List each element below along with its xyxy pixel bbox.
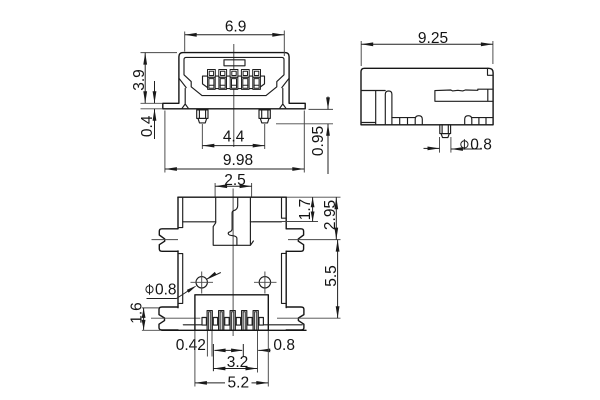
block pin 2 bbox=[219, 311, 224, 331]
right edge outer segments bbox=[285, 197, 287, 307]
contact bar bbox=[435, 89, 493, 101]
flange lower-right bbox=[286, 307, 304, 330]
bump right bbox=[465, 116, 472, 125]
inner horizontal left bbox=[183, 221, 216, 223]
hole left bbox=[191, 272, 214, 294]
svg-text:0.42: 0.42 bbox=[176, 337, 206, 354]
svg-text:1.6: 1.6 bbox=[128, 302, 145, 324]
pin holder trapezoid bbox=[203, 76, 265, 89]
wire centerline front view bbox=[233, 44, 235, 147]
notch line lower-left bbox=[151, 317, 200, 319]
svg-text:9.98: 9.98 bbox=[223, 152, 253, 169]
pin 4 bbox=[241, 70, 249, 90]
horizontal line behind pins bbox=[183, 324, 302, 326]
right edge mid slot bbox=[282, 253, 287, 303]
pin block bbox=[195, 295, 268, 331]
notch line upper-left bbox=[152, 239, 179, 241]
dimension 2.5 bbox=[215, 172, 252, 197]
dimension 1.6 bbox=[128, 302, 159, 330]
leader phi 0.8 label bbox=[146, 272, 221, 299]
svg-text:5.5: 5.5 bbox=[323, 265, 340, 287]
bottom edge bbox=[162, 329, 307, 331]
block pin 4 bbox=[242, 311, 247, 331]
side peg bbox=[440, 125, 451, 138]
flange upper-right bbox=[286, 229, 303, 252]
dimension 6.9 bbox=[185, 18, 285, 56]
flange upper-left bbox=[159, 229, 178, 252]
bend crease left bbox=[179, 78, 186, 87]
corner step detail bbox=[488, 68, 494, 75]
svg-text:1.7: 1.7 bbox=[297, 199, 314, 221]
dimension 0.42 group bbox=[176, 331, 244, 371]
bottom ext left bbox=[142, 329, 162, 331]
notch line upper-right bbox=[288, 239, 341, 241]
block pin 5 bbox=[253, 311, 258, 331]
dimension 5.5 bbox=[323, 240, 340, 319]
dimension 0.8 (right pins) bbox=[258, 331, 295, 373]
peg left bbox=[197, 110, 208, 123]
dimension 5.2 bbox=[195, 331, 268, 391]
teeth right bbox=[472, 118, 493, 125]
dimension 1.7 bbox=[253, 197, 318, 221]
inner wall foot right bbox=[279, 89, 286, 109]
right edge inner top slot bbox=[282, 197, 287, 218]
dimension 0.4 bbox=[139, 81, 163, 139]
dimension 2.95 bbox=[322, 197, 339, 239]
pin 3 bbox=[230, 70, 238, 90]
svg-text:0.95: 0.95 bbox=[310, 126, 327, 156]
hole right bbox=[254, 272, 277, 294]
svg-text:0.4: 0.4 bbox=[139, 115, 156, 137]
top slot bbox=[224, 60, 245, 66]
inner horizontal right bbox=[250, 221, 281, 223]
block pin 1 bbox=[207, 311, 212, 331]
block pin 3 bbox=[230, 311, 235, 331]
left edge inner top slot bbox=[178, 197, 183, 227]
svg-text:2.5: 2.5 bbox=[224, 172, 246, 189]
dimension 4.4 bbox=[202, 124, 264, 149]
dimension 3.2 bbox=[213, 354, 257, 371]
dimension 0.95 bbox=[276, 97, 333, 175]
top edge bbox=[178, 196, 286, 198]
svg-text:6.9: 6.9 bbox=[225, 18, 247, 35]
svg-text:9.25: 9.25 bbox=[418, 30, 448, 47]
dimension dia 0.8 (side peg) bbox=[424, 136, 492, 153]
rounded-top bar slot bbox=[385, 91, 392, 125]
side body outline bbox=[361, 68, 493, 125]
inner wall foot left bbox=[182, 89, 189, 109]
dimension 3.9 bbox=[131, 53, 177, 104]
svg-text:3.2: 3.2 bbox=[227, 354, 249, 371]
left block lines bbox=[361, 91, 385, 125]
notch line lower-right bbox=[277, 317, 341, 319]
dimension 9.25 bbox=[361, 30, 493, 66]
shell inner contour (sheet thickness) bbox=[184, 57, 284, 95]
connector shell outer contour with flanges bbox=[163, 53, 305, 109]
inter-pin squares bbox=[202, 318, 263, 326]
pin 2 bbox=[219, 70, 227, 90]
svg-text:3.9: 3.9 bbox=[131, 69, 148, 91]
bend crease right bbox=[282, 78, 289, 87]
svg-text:0.8: 0.8 bbox=[470, 136, 492, 153]
ext top right bbox=[287, 196, 341, 198]
left edge mid slot bbox=[178, 254, 183, 304]
pin 1 bbox=[208, 70, 216, 90]
svg-text:4.4: 4.4 bbox=[223, 129, 245, 146]
center tab bbox=[213, 197, 253, 245]
wire centerline bottom view bbox=[232, 189, 234, 337]
svg-text:5.2: 5.2 bbox=[228, 374, 250, 391]
pin 5 bbox=[253, 70, 261, 90]
teeth left bbox=[392, 118, 415, 125]
peg right bbox=[259, 110, 270, 123]
left edge outer segments bbox=[177, 197, 179, 308]
svg-text:0.8: 0.8 bbox=[155, 282, 177, 299]
svg-text:0.8: 0.8 bbox=[273, 337, 295, 354]
dimension 9.98 bbox=[165, 111, 304, 173]
bump left bbox=[415, 116, 422, 125]
flange lower-left bbox=[159, 307, 178, 330]
tab spring wavy line bbox=[228, 197, 237, 245]
svg-text:2.95: 2.95 bbox=[322, 200, 339, 230]
